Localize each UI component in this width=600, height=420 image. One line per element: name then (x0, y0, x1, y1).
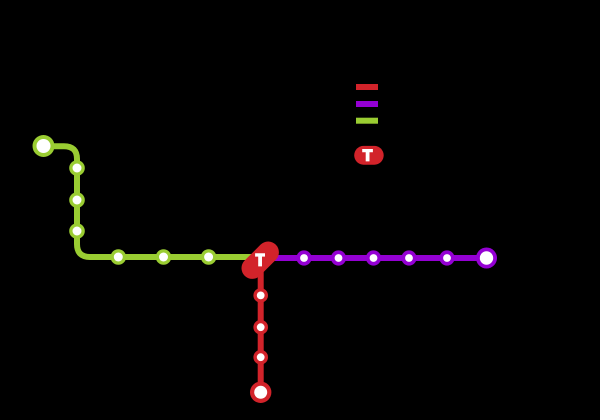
interchange T letter (255, 253, 265, 266)
red line (258, 250, 264, 392)
red terminus station (250, 382, 271, 403)
green station 3 (69, 223, 85, 239)
green station 5 (156, 249, 172, 265)
green station 6 (201, 249, 217, 265)
purple terminus station (476, 248, 497, 269)
purple station 5 (439, 250, 454, 265)
purple line (258, 255, 487, 261)
red station 2 (253, 320, 268, 335)
purple station 2 (331, 250, 346, 265)
purple station 3 (366, 250, 381, 265)
green line (44, 146, 261, 257)
purple station 1 (296, 250, 311, 265)
green station 1 (69, 160, 85, 176)
red station 1 (253, 288, 268, 303)
green station 2 (69, 192, 85, 208)
legend green line swatch (356, 118, 378, 124)
legend red line swatch (356, 84, 378, 90)
interchange T marker (237, 237, 283, 283)
legend interchange T icon (354, 146, 384, 165)
green station 4 (111, 249, 127, 265)
red station 3 (253, 350, 268, 365)
green terminus station (33, 135, 55, 157)
purple station 4 (401, 250, 416, 265)
legend purple line swatch (356, 101, 378, 107)
